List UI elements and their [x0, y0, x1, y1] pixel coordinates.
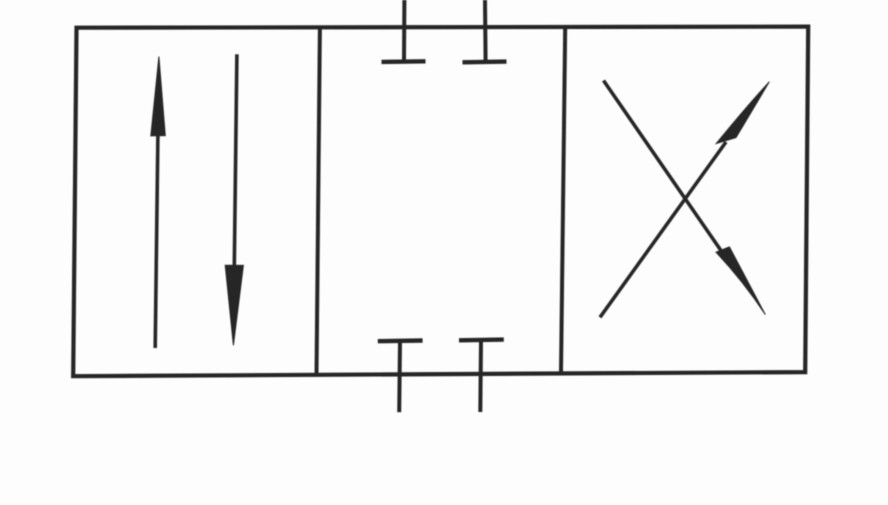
left position: upward flow arrowhead — [151, 57, 166, 136]
right position: crossed-flow arrow shaft rising to the right — [600, 142, 726, 317]
right position: arrowhead pointing down-right — [716, 247, 765, 315]
left position: downward flow arrow shaft — [234, 54, 237, 266]
centre position: top-right blocked-port T-bar — [463, 59, 507, 64]
position divider line 1 (between left and centre boxes) — [317, 27, 320, 374]
centre position: bottom-right blocked-port T-bar — [459, 337, 504, 342]
right position: crossed-flow arrow shaft falling to the right — [604, 81, 723, 253]
centre position: top-left port stem (external line P) — [402, 0, 406, 62]
centre position: bottom-right port stem (external line B) — [478, 340, 483, 412]
left position: upward flow arrow shaft — [155, 135, 158, 348]
left position: downward flow arrowhead — [225, 265, 243, 345]
centre position: top-right port stem (external line T) — [483, 0, 488, 62]
valve envelope: outer body rectangle — [73, 27, 808, 377]
position divider line 2 (between centre and right boxes) — [561, 26, 565, 372]
right position: arrowhead pointing up-right — [716, 82, 769, 144]
centre position: top-left blocked-port T-bar — [382, 59, 426, 64]
centre position: bottom-left blocked-port T-bar — [378, 338, 423, 343]
centre position: bottom-left port stem (external line A) — [397, 341, 402, 412]
